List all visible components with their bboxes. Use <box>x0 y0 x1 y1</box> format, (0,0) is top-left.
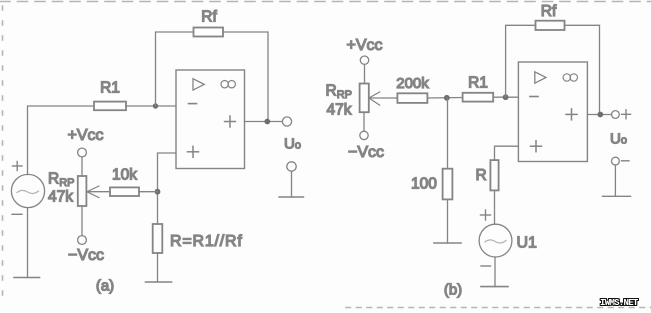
svg-text:Uo: Uo <box>610 131 627 148</box>
svg-text:Rf: Rf <box>201 9 217 26</box>
wire: Rf right leg down to output <box>223 32 268 122</box>
resistor R (a) <box>153 224 163 253</box>
svg-text:Uo: Uo <box>284 136 301 153</box>
wire: Rf left leg (b) <box>506 25 536 97</box>
wire: source V1 top to R1 left, corner at (27.5,106) <box>28 106 95 175</box>
resistor 100 <box>443 169 453 200</box>
wire: +Vcc to pot top <box>81 157 83 176</box>
resistor 200k <box>397 93 427 103</box>
wire: R to U1 source <box>494 190 496 224</box>
ground bar of 100 <box>434 242 461 244</box>
svg-text:47k: 47k <box>48 189 73 206</box>
label plus of V1 <box>13 162 23 171</box>
terminal Uo upper circle (b) <box>612 111 620 119</box>
source U1 sine wave <box>485 240 506 243</box>
wire: 100 to ground <box>447 199 449 243</box>
label minus of output (b) <box>622 160 630 162</box>
wire: op-amp output to terminal (b) <box>587 114 611 116</box>
potentiometer RRP body (a) <box>78 176 87 206</box>
label plus of output (b) <box>622 110 631 119</box>
wire: 10k right to junction <box>139 191 158 193</box>
terminal Uo upper circle (a) <box>282 117 291 126</box>
resistor Rf <box>194 28 224 37</box>
pin label: output plus (b) <box>566 109 577 120</box>
watermark IWMS.NET <box>600 298 638 308</box>
node: inverting input junction <box>153 103 158 108</box>
node: divider junction <box>155 189 161 195</box>
wire: wiper to 10k left <box>87 191 110 193</box>
wire: non-inverting input to divider node <box>158 153 177 224</box>
wire: node A down to 100 resistor <box>447 98 449 169</box>
ground bar of R <box>146 281 172 283</box>
node A junction <box>444 95 450 101</box>
wire: +Vcc to pot top (b) <box>364 64 366 83</box>
op-amp triangle symbol (b) <box>535 72 546 83</box>
ground bar of U1 <box>481 286 508 288</box>
resistor 10k <box>110 187 139 196</box>
resistor R (b) <box>490 160 498 190</box>
terminal +Vcc circle (a) <box>78 148 87 157</box>
wire: non-inverting input to R (b) <box>495 146 519 160</box>
wire: wiper to 200k <box>369 97 398 99</box>
wiper arrow of potentiometer RRP <box>87 186 99 198</box>
pin label: inverting minus (b) <box>530 96 538 98</box>
svg-text:+Vcc: +Vcc <box>67 127 103 144</box>
wire: lower terminal stem (b) <box>614 165 616 196</box>
label plus of U1 <box>481 210 491 220</box>
wire: lower terminal stem <box>291 171 293 197</box>
wire: pot bottom to -Vcc <box>81 206 83 236</box>
op-amp infinity symbol (b) <box>563 74 577 81</box>
svg-text:RRP: RRP <box>326 83 352 102</box>
resistor R1 <box>94 102 126 111</box>
wire: pot bottom to -Vcc (b) <box>363 112 365 131</box>
wire: R1 to op-amp inverting input (b) <box>493 96 518 98</box>
svg-text:−Vcc: −Vcc <box>348 144 384 161</box>
ground bar of V1 <box>14 277 40 279</box>
label minus of U1 <box>481 265 491 267</box>
wire: R bottom to ground <box>157 253 159 282</box>
node: output junction (b) <box>597 112 603 118</box>
source V1 sine wave <box>17 190 39 193</box>
terminal Uo lower circle (a) <box>287 162 296 171</box>
wire: V1 bottom to ground <box>27 208 29 278</box>
wire: Rf left leg <box>156 32 194 106</box>
pin label: inverting input minus <box>189 103 197 105</box>
op-amp triangle symbol <box>193 79 204 90</box>
pin label: non-inverting plus (b) <box>531 141 542 152</box>
svg-text:R1: R1 <box>100 80 120 97</box>
ground bar of output (a) <box>279 196 304 198</box>
svg-text:−Vcc: −Vcc <box>68 247 104 264</box>
svg-text:(b): (b) <box>444 282 462 299</box>
wire: U1 bottom to ground <box>494 257 496 287</box>
svg-text:R1: R1 <box>468 75 488 92</box>
svg-text:RRP: RRP <box>48 171 74 190</box>
svg-text:R: R <box>476 167 487 184</box>
svg-text:47k: 47k <box>327 102 352 119</box>
svg-text:R=R1//Rf: R=R1//Rf <box>170 233 243 250</box>
terminal Uo lower circle (b) <box>612 157 620 165</box>
node: output junction <box>264 119 270 125</box>
op-amp U1a body <box>176 70 245 169</box>
pin label: output plus <box>225 116 236 127</box>
svg-text:Rf: Rf <box>541 3 557 20</box>
svg-text:200k: 200k <box>396 75 429 92</box>
wire: 200k to node A <box>427 97 462 100</box>
node: inverting junction (b) <box>503 94 509 100</box>
op-amp U1b body <box>518 62 587 162</box>
source V1 circle <box>11 174 44 207</box>
op-amp infinity symbol <box>221 81 235 88</box>
wire: Rf right leg to output (b) <box>565 25 600 114</box>
ground bar of output (b) <box>603 195 631 197</box>
terminal -Vcc circle (a) <box>78 236 87 245</box>
terminal +Vcc circle (b) <box>360 56 368 64</box>
potentiometer RRP body (b) <box>360 84 369 113</box>
source U1 circle <box>479 224 512 257</box>
resistor R1 (b) <box>463 93 494 102</box>
svg-text:U1: U1 <box>517 235 538 252</box>
svg-text:100: 100 <box>411 176 437 193</box>
label minus of V1 <box>12 213 22 215</box>
pin label: non-inverting input plus <box>188 146 199 157</box>
terminal -Vcc circle (b) <box>360 131 368 139</box>
resistor Rf (b) <box>536 21 565 30</box>
wire: op-amp output to terminal <box>245 121 283 123</box>
wiper arrow of potentiometer (b) <box>369 92 380 105</box>
svg-text:+Vcc: +Vcc <box>346 37 382 54</box>
wire: R1 right to op-amp inverting input <box>126 105 176 107</box>
svg-text:10k: 10k <box>112 167 137 184</box>
svg-text:(a): (a) <box>96 278 114 295</box>
